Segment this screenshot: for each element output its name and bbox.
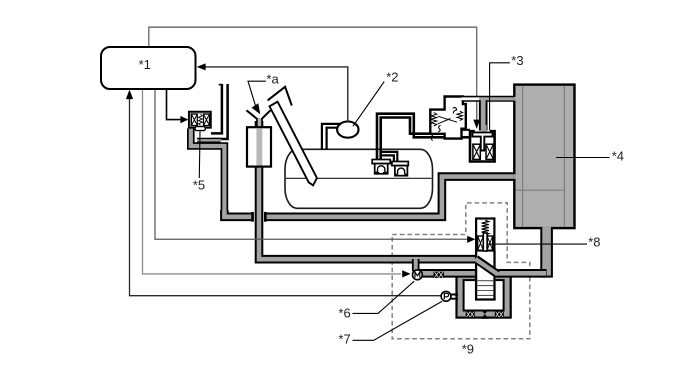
- svg-text:*1: *1: [139, 57, 151, 72]
- wire: pipe from reservoir to *5 valve (white core, open top): [211, 84, 228, 139]
- svg-text:*9: *9: [462, 341, 474, 356]
- label line and text *8: [487, 235, 601, 250]
- pump chamber (accumulator housing): [457, 272, 511, 317]
- hydraulic line: pump lower run from motor M to *4 stub: [412, 269, 547, 278]
- svg-text:*4: *4: [612, 149, 624, 164]
- diagonal channel from simulator run down to pump run: [475, 259, 498, 274]
- dashed enclosure *9: [392, 203, 530, 339]
- svg-text:*7: *7: [338, 331, 350, 346]
- ECU box *1: [101, 47, 196, 89]
- check valve bowtie at pump outlet: [481, 310, 489, 319]
- wire: pipe from reservoir caps up-over to regulator (white core): [377, 114, 470, 162]
- wire: sensor *2 to ECU *1 with arrow: [197, 63, 348, 121]
- svg-text:*8: *8: [588, 235, 600, 250]
- label line and text *4: [556, 149, 624, 164]
- svg-text:*a: *a: [266, 72, 279, 87]
- wire: pressure sensor P to ECU with arrow into box bottom: [126, 90, 441, 296]
- valve *8 lower chamber (white, slanted bottom): [476, 250, 496, 272]
- hydraulic line: *5 valve down to main run: [191, 129, 225, 215]
- pressure sensor P: [441, 291, 451, 301]
- hydraulic pipe: regulator / *3 feed to block *4: [462, 99, 516, 133]
- label line and text *7: [338, 301, 442, 346]
- stroke simulator body: [247, 110, 272, 166]
- label line, arrow and text *a: [248, 72, 279, 115]
- label text *9: [462, 341, 474, 356]
- sensor *2 (ellipse): [337, 122, 358, 138]
- master cylinder pressure sensor *2 elbow pipe: [322, 124, 340, 150]
- svg-text:*3: *3: [511, 53, 523, 68]
- hatch fitting left of motor: [434, 272, 444, 278]
- pump piston cylinder: [475, 250, 496, 299]
- svg-text:*2: *2: [386, 69, 398, 84]
- reservoir cap / filter 2: [392, 162, 408, 176]
- wire: ECU to pump motor M with arrow: [143, 89, 411, 278]
- solenoid valve *5: [189, 112, 211, 131]
- actuator block *4: [513, 85, 574, 229]
- pump motor M: [413, 270, 423, 280]
- label line and text *3: [490, 53, 524, 130]
- wire: ECU top loop to valve *3: [149, 27, 477, 122]
- reservoir / master cylinder tank: [285, 149, 433, 208]
- wire: ECU to *5 valve with arrow: [167, 89, 189, 123]
- hydraulic line: block *4 bottom stub down to pump run: [540, 226, 553, 278]
- solenoid valve *8 with spring: [476, 219, 494, 252]
- pedal clevis fork: [268, 87, 292, 106]
- pressure regulator valve: [430, 97, 466, 141]
- hydraulic line: main run master-cylinder output to *4 block: [224, 177, 515, 222]
- hatch fitting pump bottom left: [466, 311, 475, 317]
- motor M stub: [412, 259, 420, 270]
- hydraulic line: stroke simulator rod down and right to pump: [259, 121, 476, 259]
- solenoid valve *3: [470, 125, 495, 162]
- label line and text *2: [353, 69, 399, 126]
- wire: ECU to valve *8 with arrow: [155, 89, 475, 243]
- reservoir cap / filter 1: [372, 160, 390, 174]
- svg-text:*6: *6: [338, 306, 350, 321]
- brake pedal lever: [270, 102, 317, 186]
- svg-text:*5: *5: [193, 178, 205, 193]
- label line and text *6: [338, 281, 414, 320]
- hatch fitting pump bottom right: [495, 311, 504, 317]
- label line and text *5: [193, 132, 205, 193]
- pressure sensor P stub: [450, 295, 458, 299]
- arrow into valve *3 from ECU loop: [473, 104, 480, 129]
